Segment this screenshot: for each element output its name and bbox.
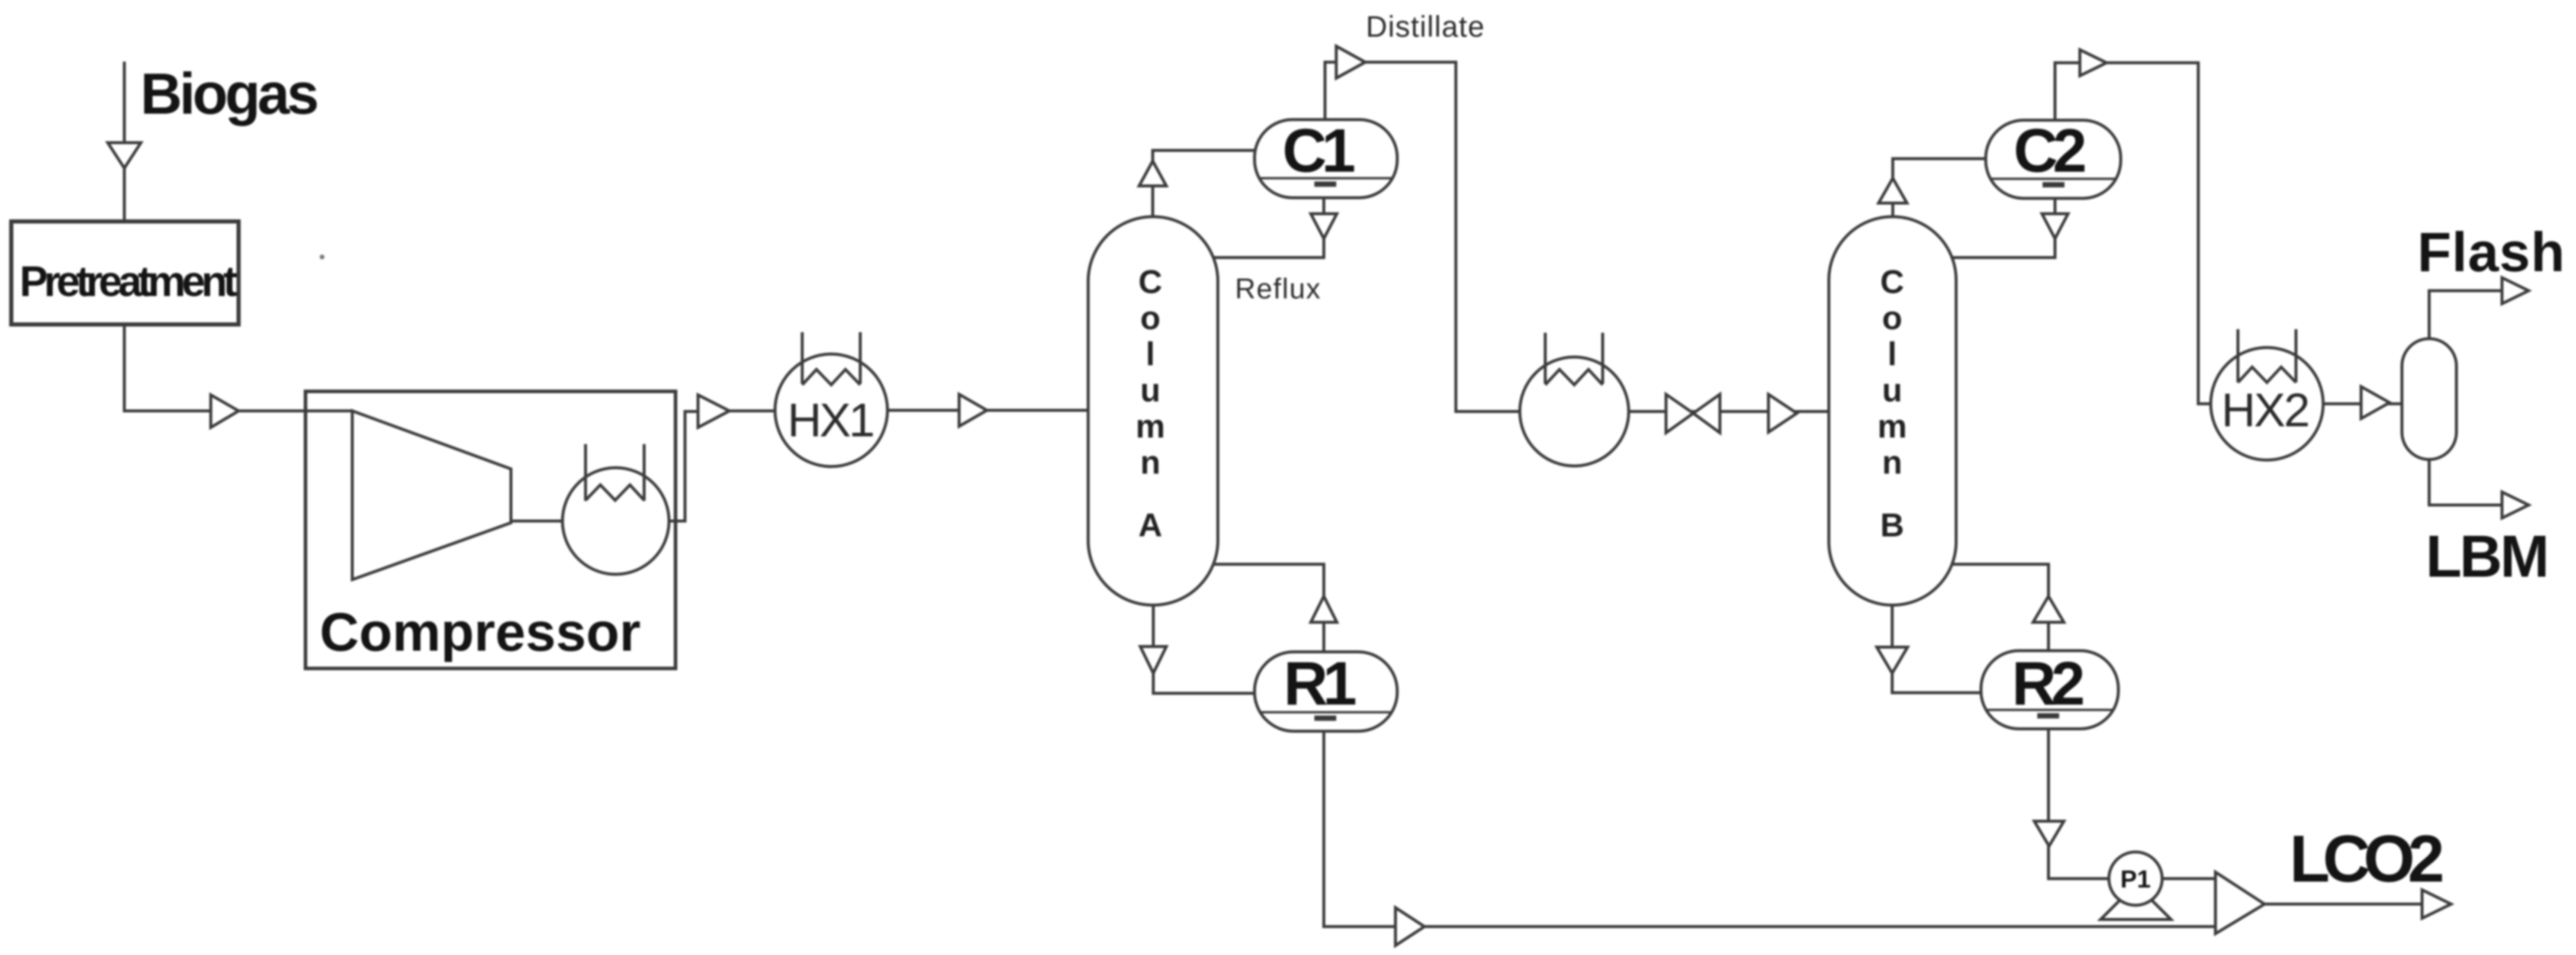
column B vessel	[1829, 217, 1956, 605]
node feed arrow	[211, 395, 239, 427]
wire junction to LCO2	[2265, 903, 2422, 906]
node R2 vapor arrow up	[2033, 596, 2064, 622]
wire compressor outlet riser	[669, 411, 698, 521]
cooler aftercooler fins	[586, 444, 644, 501]
svg-text:C: C	[1139, 263, 1162, 300]
pump P1 circle	[2109, 852, 2162, 905]
svg-text:Flash: Flash	[2417, 221, 2565, 283]
svg-text:l: l	[1146, 335, 1155, 372]
condenser C2 level line	[1990, 178, 2117, 180]
condenser C1 tick	[1314, 182, 1336, 187]
svg-text:Reflux: Reflux	[1235, 274, 1320, 305]
node R2 bottoms arrow down	[2034, 821, 2064, 846]
wire flash top outlet	[2429, 291, 2502, 339]
node overhead arrow up B	[1879, 178, 1907, 203]
compressor trapezoid	[352, 411, 511, 580]
wire C1 reflux to Column A	[1213, 198, 1324, 258]
valve V1	[1666, 394, 1693, 433]
svg-text:P1: P1	[2120, 865, 2150, 893]
heat-exchanger HX1 zigzag	[802, 369, 860, 385]
wire R1 bottoms long line	[1324, 731, 2215, 927]
svg-text:o: o	[1140, 299, 1160, 336]
reboiler R1 level line	[1259, 711, 1392, 713]
wire C2 reflux to Column B	[1951, 198, 2055, 258]
condenser C2 tick	[2043, 182, 2064, 188]
svg-text:Distillate: Distillate	[1366, 10, 1484, 43]
node feed arrow Column A	[959, 394, 987, 426]
wire Column A overhead to C1	[1153, 150, 1256, 217]
svg-text:HX2: HX2	[2221, 384, 2310, 436]
cooler interstage fins	[1545, 333, 1603, 384]
wire C2 top to HX2	[2055, 63, 2211, 404]
wire HX2 to flash drum	[2323, 403, 2402, 406]
cooler aftercooler circle	[562, 468, 669, 574]
cooler aftercooler zigzag	[586, 485, 644, 500]
reboiler R1 vessel	[1255, 652, 1397, 731]
wire R1 vapor to Column A	[1214, 564, 1324, 652]
flash drum vessel	[2402, 339, 2456, 459]
condenser C1 vessel	[1255, 120, 1397, 198]
wire biogas feed	[123, 62, 126, 223]
svg-text:Biogas: Biogas	[140, 61, 319, 126]
node reflux arrow down	[1311, 214, 1337, 239]
wire Column B overhead to C2	[1893, 159, 1986, 217]
svg-text:HX1: HX1	[787, 394, 875, 446]
svg-text:n: n	[1140, 443, 1160, 481]
svg-text:R2: R2	[2012, 649, 2085, 718]
cooler interstage circle	[1520, 357, 1629, 466]
pump P1 base	[2101, 899, 2171, 919]
svg-text:m: m	[1136, 407, 1165, 445]
heat-exchanger HX1 circle	[775, 354, 887, 467]
node biogas feed arrow	[108, 143, 141, 168]
node bottoms arrow down B	[1877, 647, 1908, 673]
svg-text:LCO2: LCO2	[2289, 822, 2445, 896]
reboiler R1 tick	[1314, 716, 1336, 721]
wire R2 vapor to Column B	[1951, 564, 2048, 651]
wire Column A bottoms to R1	[1153, 605, 1256, 693]
wire to HX1	[729, 410, 776, 413]
heat-exchanger HX2 circle	[2211, 348, 2323, 460]
svg-text:B: B	[1880, 506, 1904, 544]
cooler interstage zigzag	[1545, 369, 1603, 385]
svg-text:o: o	[1882, 299, 1902, 336]
node junction triangle	[2215, 872, 2265, 934]
svg-text:n: n	[1882, 443, 1902, 481]
svg-text:R1: R1	[1284, 649, 1357, 718]
node feed arrow Column B	[1768, 394, 1797, 432]
wire HX1 to Column A	[887, 409, 1088, 412]
condenser C1 level line	[1259, 177, 1392, 179]
svg-text:C2: C2	[2014, 117, 2087, 185]
heat-exchanger HX2 zigzag	[2238, 367, 2296, 382]
heat-exchanger HX1 fins	[802, 332, 860, 384]
wire Column B bottoms to R2	[1892, 605, 1980, 693]
wire C1 distillate to cooler	[1325, 62, 1520, 411]
column A vessel	[1088, 217, 1218, 605]
wire pretreatment to compressor	[124, 324, 353, 411]
node overhead arrow up	[1139, 161, 1166, 186]
node Column A label	[1136, 263, 1165, 544]
node arrow to HX1	[698, 395, 729, 427]
node bottoms arrow down A	[1140, 647, 1166, 673]
wire flash bottom outlet LBM	[2429, 459, 2502, 505]
node R1 vapor arrow up	[1311, 596, 1337, 622]
node Flash arrow	[2502, 278, 2529, 304]
svg-text:m: m	[1877, 407, 1907, 445]
node Column B label	[1877, 263, 1907, 544]
svg-text:A: A	[1139, 506, 1162, 544]
svg-text:u: u	[1882, 371, 1902, 409]
wire cooler to valve to Column B	[1629, 410, 1829, 413]
node arrow to flash	[2361, 387, 2390, 419]
svg-text:LBM: LBM	[2426, 523, 2549, 590]
reboiler R2 tick	[2037, 713, 2059, 719]
wire trapezoid to aftercooler	[511, 520, 563, 523]
svg-text:Pretreatment: Pretreatment	[20, 258, 237, 306]
wire pump to junction	[2162, 877, 2215, 880]
condenser C2 vessel	[1986, 120, 2121, 198]
node LBM arrow	[2502, 492, 2529, 518]
wire R2 bottoms to pump P1	[2048, 729, 2109, 879]
reboiler R2 vessel	[1981, 651, 2118, 729]
svg-text:u: u	[1140, 371, 1160, 409]
node speck	[320, 255, 324, 259]
svg-text:l: l	[1887, 335, 1897, 372]
node C2 top arrow	[2080, 50, 2107, 76]
heat-exchanger HX2 fins	[2238, 329, 2296, 382]
compressor K1 box	[305, 391, 676, 668]
reboiler R2 level line	[1986, 709, 2114, 711]
node LCO2 line arrow	[1395, 908, 1424, 946]
pretreatment unit	[11, 221, 239, 324]
node distillate arrow	[1336, 46, 1365, 78]
node LCO2 arrow	[2422, 890, 2451, 918]
svg-text:C1: C1	[1282, 117, 1356, 185]
svg-text:C: C	[1880, 263, 1904, 300]
node C2 reflux arrow down	[2042, 214, 2068, 239]
svg-text:Compressor: Compressor	[320, 602, 641, 663]
